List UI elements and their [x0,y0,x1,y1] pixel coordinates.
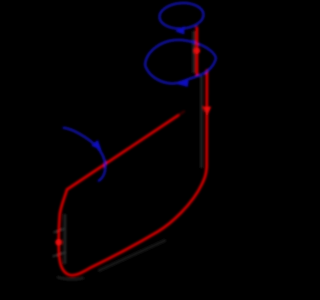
field line B1 front arc (top ellipse, near side) [160,14,205,30]
field line B1 arrowhead [175,26,185,35]
shadow of left edge [63,214,66,264]
shadow of right edge [200,76,203,168]
wire: back diagonal + left edge + bottom + right edge of loop [59,71,207,276]
tick mark upper on left edge [54,229,65,233]
field line B2 arrowhead [175,78,189,87]
shadow of lead wire [192,31,195,73]
wire: straight lead through field ellipses [196,28,199,75]
current dot marker on lead wire [194,48,200,54]
field line B3 arrowhead [91,140,101,151]
tick mark lower on left edge [53,252,66,256]
current arrowhead on right edge (pointing down) [203,107,211,117]
shadow of bottom edge [98,240,166,271]
field line B2 back arc (second ellipse, far side) [145,40,216,65]
shadow of bottom corner [57,277,84,279]
field line B2 front arc (second ellipse, near side) [145,59,216,84]
field line B3 arc around diagonal wire [64,128,106,181]
current dot marker on left edge [55,239,62,246]
field line B1 back arc (top ellipse, far side) [159,2,204,18]
wire: faint far end of back diagonal [178,112,184,116]
